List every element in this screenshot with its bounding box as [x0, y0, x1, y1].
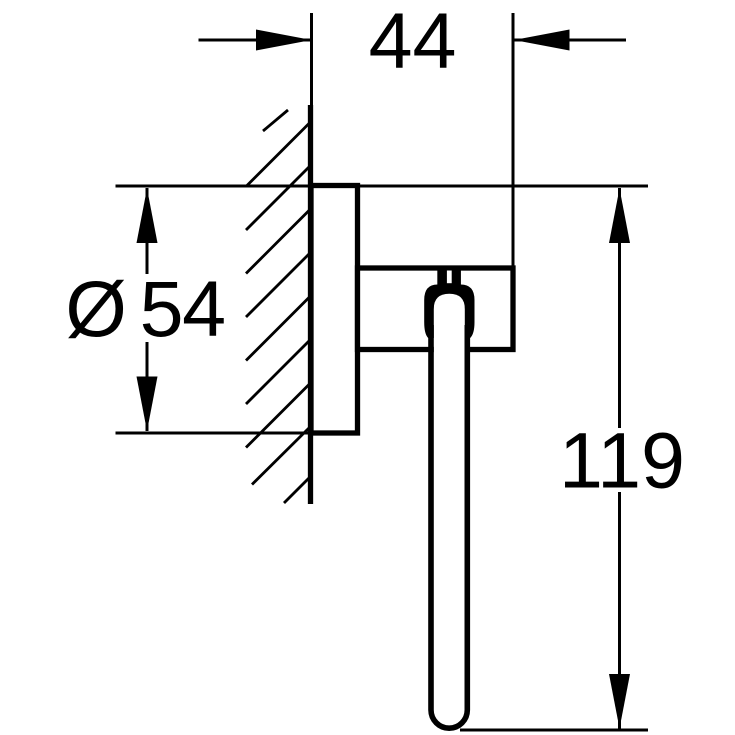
wall line — [308, 105, 313, 504]
pin slot (white) — [447, 271, 452, 284]
dimension arrows — [137, 30, 631, 729]
dim line 44 left segment — [199, 39, 312, 42]
extension line right (44) — [512, 13, 515, 267]
dim line 44 right segment — [514, 39, 626, 42]
dim line 119 vertical — [618, 188, 621, 729]
extension line left (44) — [310, 13, 313, 186]
holder body — [358, 268, 514, 350]
wall hatching — [246, 110, 311, 503]
pivot hook silhouette — [424, 266, 474, 338]
text masks — [60, 274, 686, 492]
arrow 44 left (points right) — [256, 30, 312, 51]
roll holder loop — [431, 325, 467, 728]
pivot inner opening (white) — [434, 294, 465, 360]
pivot pin — [437, 266, 460, 286]
arrow 119 down — [609, 674, 630, 729]
top extension line (shared 54/119) — [116, 185, 649, 188]
svg-text:44: 44 — [369, 0, 457, 85]
bottom extension line (119) — [460, 729, 648, 732]
thin construction/dimension lines — [116, 13, 649, 730]
arrow 119 up — [609, 189, 630, 244]
svg-text:Ø 54: Ø 54 — [65, 264, 224, 353]
arrow 44 right (points left) — [514, 30, 570, 51]
dim line 54 vertical — [146, 188, 149, 431]
svg-text:119: 119 — [559, 416, 685, 505]
bottom extension line (54) — [116, 432, 358, 435]
arrow 54 down — [137, 377, 158, 432]
wall plate (escutcheon) — [311, 186, 358, 434]
arrow 54 up — [137, 189, 158, 244]
